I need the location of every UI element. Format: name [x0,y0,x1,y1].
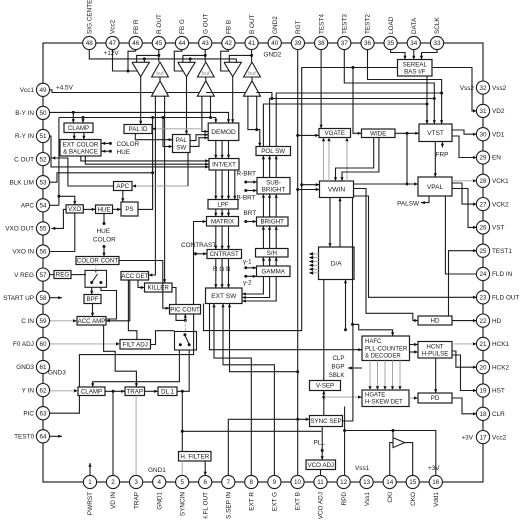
dot BRT [244,210,257,223]
gray wire TRAP to pin 3 [135,396,137,476]
label R G B [213,266,230,273]
pin 2 VD IN [106,475,119,509]
wire VXO OUT to pin 55 [52,209,67,230]
pin 59 C IN [21,314,49,327]
svg-text:6: 6 [203,479,207,486]
pin 19 HST [476,384,504,397]
svg-text:V REG: V REG [14,272,34,279]
pin 8 EXT R [245,475,258,510]
pin 54 APC [21,199,50,212]
block V-SEP [310,381,341,391]
wire HGATE down to RPD [343,407,346,476]
wire VWIN to VPAL [354,182,419,185]
wire pin 11 to VCO ADJ [320,470,322,476]
pin 51 R-Y IN [15,129,50,142]
wire VTST top arrow [425,104,428,124]
wire D/A to VWIN [338,198,341,248]
pin 55 VXO OUT [5,222,49,235]
svg-text:GND2: GND2 [264,52,282,59]
svg-text:14: 14 [386,479,394,486]
wire V-SEP up to D/A [323,280,325,381]
wire pin 9 EXT G to EXT SW [221,304,274,476]
pin 32 Vss2 [476,81,506,94]
block SYNC SEP [310,416,343,427]
wire VTST to VPAL [434,142,437,178]
svg-text:39: 39 [294,40,302,47]
pin 22 HD [476,314,501,327]
wire pin 53 BLK LIM [49,171,154,182]
wires BRIGHT to SUB-BRIGHT [262,194,278,217]
wire pin 56 VXO IN [49,213,75,252]
pin 63 PIC [23,407,49,420]
wire BPF to ACC AMP [91,304,94,317]
svg-text:Vss1: Vss1 [355,465,370,472]
svg-text:GND3: GND3 [48,370,66,377]
gray wire APC control [132,184,188,187]
wire REG to switch [71,274,86,276]
svg-text:EXT COLOR: EXT COLOR [63,141,99,148]
wire D/A to pin 23 FLD OUT [354,196,477,299]
svg-text:48: 48 [86,40,94,47]
label Vss2 left [460,85,475,92]
pin 43 G OUT [199,14,212,50]
switch S1 [85,270,107,287]
svg-text:18: 18 [479,411,487,418]
svg-text:& BALANCE: & BALANCE [63,149,98,156]
svg-text:25: 25 [479,248,487,255]
svg-text:H-PULSE: H-PULSE [422,351,449,358]
wire ext color to int/ext 2 [85,156,209,166]
wire POL SW to VTST col 1 [263,103,428,147]
wires MATRIX to CNTRAST [214,226,230,250]
block CLAMP (luma) [78,387,105,396]
pin 7 S.SEP IN [222,475,235,518]
svg-text:HD: HD [431,318,440,325]
pin 41 B OUT [245,14,258,49]
gray wire to HGATE [324,396,362,399]
wire FB pin jog group 3 [221,49,230,71]
wire SYNC SEP to PLL [321,427,323,451]
svg-text:41: 41 [248,40,256,47]
wire PAL SW to APC line [187,153,189,187]
svg-text:H. FILTER: H. FILTER [180,454,209,461]
svg-text:B-BRT: B-BRT [237,194,256,201]
svg-text:R G B: R G B [213,266,230,273]
wires LPF to MATRIX [214,209,230,217]
wire C3 right leg [255,96,258,131]
svg-text:VD2: VD2 [492,108,505,115]
pin 60 F0 ADJ [13,337,50,350]
dot HUE adjust [102,149,131,156]
wire bus2 to PAL SW [163,118,173,149]
wire HAFC to HCNT 2 [410,350,419,353]
svg-text:35: 35 [387,40,395,47]
svg-text:HD: HD [492,318,502,325]
dot COLOR center [93,237,116,257]
svg-text:COLOR CONT: COLOR CONT [77,258,118,265]
pin 29 EN [476,151,501,164]
wire RGT to VWIN [298,188,320,191]
block HGATE H-SKEW DET [362,390,409,407]
block HUE [96,205,113,214]
svg-text:46: 46 [132,40,140,47]
svg-text:S/H: S/H [267,250,277,257]
block MATRIX [207,217,239,227]
svg-text:HST: HST [492,388,505,395]
label +3V above pin 16 [428,465,440,472]
block EXT COLOR & BALANCE [60,140,101,157]
svg-text:C IN: C IN [21,318,34,325]
svg-text:buf: buf [202,71,210,77]
wire pin 63 PIC to PIC CONT [49,314,193,413]
svg-text:SBLK: SBLK [329,372,346,379]
wires GAMMA to EXT SW [242,277,276,303]
block KILLER [145,283,173,292]
svg-text:VD1: VD1 [492,131,505,138]
wire CKO to pin 15 [405,443,413,476]
wire WIDE drop to VPAL [406,133,409,185]
svg-text:D/A: D/A [331,261,343,268]
wire pin 37 TEST3 [344,49,436,124]
svg-text:19: 19 [479,388,487,395]
wire pin 58 START UP stub [49,296,62,299]
pin 40 GND2 [268,16,281,50]
svg-text:Y IN: Y IN [22,387,35,394]
wire VTST to pin 29 [452,136,477,159]
svg-text:HUE: HUE [97,228,111,235]
svg-text:BGP: BGP [331,363,344,370]
wire C3 left leg to POL SW [248,96,262,146]
svg-text:SIG.CENTER: SIG.CENTER [87,0,94,34]
wire ext color to int/ext 1 [81,156,209,163]
pin 47 Vcc2 [106,19,119,49]
label CLP BGP SBLK [329,355,362,379]
wire amp A2 out to PAL SW [185,77,188,135]
svg-text:B OUT: B OUT [249,14,256,34]
amplifier C1 [152,81,169,96]
svg-text:START UP: START UP [3,295,34,302]
svg-text:45: 45 [155,40,163,47]
wire PD to pin 18 [452,398,477,415]
wire pin 2 VD IN up [112,391,114,476]
wire pin 24 FLD IN to VPAL [445,196,476,274]
svg-text:27: 27 [479,201,487,208]
wire buf to lower triangle group 2 [205,77,207,81]
wire pin 8 EXT R to EXT SW [212,304,251,476]
wire WIDE to VWIN 2 [340,138,379,182]
svg-text:64: 64 [39,434,47,441]
wire +4.5V rail seg4 [256,93,273,101]
gray wire VPAL to pin 28 [452,179,477,182]
svg-text:HCNT: HCNT [426,343,443,350]
wire clamp feed 2 [81,118,84,124]
wire buf to lower triangle group 3 [251,77,253,81]
svg-text:CLAMP: CLAMP [68,125,89,132]
svg-text:BPF: BPF [86,296,98,303]
pin 33 SCLK [430,17,443,50]
wire pin 7 S.SEP IN to SYNC SEP [228,418,309,476]
svg-text:59: 59 [39,318,47,325]
block switch box S3 [175,332,197,351]
wire pin 33 SCLK [420,49,437,59]
block D/A [319,247,355,280]
pin 27 VCK2 [476,198,509,211]
pin 57 V REG [14,268,49,281]
label +12V [104,50,120,57]
svg-text:DEMOD: DEMOD [211,129,236,136]
wire SYNC SEP to V-SEP [322,391,325,416]
wire TRAP to DL 1 [145,390,159,393]
block INT/EXT [209,159,239,171]
wire amp A1 out to PAL ID [139,77,142,125]
label GND3 [48,370,66,377]
gray wire pin 59 C IN [49,319,77,322]
wire pin 57 to REG [49,274,54,276]
svg-text:BRIGHT: BRIGHT [262,187,286,194]
wire C1 left leg to ACC DET [149,96,156,276]
svg-text:34: 34 [410,40,418,47]
svg-text:R OUT: R OUT [156,14,163,34]
wire clamp to ext color 1 [73,133,76,140]
svg-text:SEREAL: SEREAL [403,61,428,68]
svg-text:EN: EN [492,155,501,162]
wire feedback group 3 [229,55,251,62]
svg-text:54: 54 [39,203,47,210]
wire WIDE to VTST [395,132,419,135]
block APC [114,182,133,191]
svg-text:TEST4: TEST4 [318,14,325,34]
svg-text:56: 56 [39,249,47,256]
wire clamp feed 1 [72,112,75,123]
svg-text:FB B: FB B [226,20,233,34]
svg-text:EXT R: EXT R [249,492,256,511]
svg-text:CLR: CLR [492,411,505,418]
svg-text:37: 37 [341,40,349,47]
svg-text:32: 32 [479,85,487,92]
wire switch to BPF [90,287,93,294]
svg-text:ACC DET: ACC DET [121,273,148,280]
linkage S1 dashed [95,265,97,271]
gray wire pin 5 SYNCIN [181,461,183,476]
svg-text:52: 52 [39,156,47,163]
svg-text:49: 49 [39,87,47,94]
svg-text:12: 12 [340,479,348,486]
svg-text:Vss2: Vss2 [460,85,475,92]
svg-text:VD IN: VD IN [110,492,117,509]
block PD [418,393,452,403]
block FILT ADJ [120,340,151,350]
svg-text:16: 16 [432,479,440,486]
svg-text:CKO: CKO [410,492,417,506]
wire POL SW to VTST col 2 [270,97,436,147]
wire feedback group 1 [137,55,159,62]
wire switch right leg [101,287,117,319]
wire PIC CONT to MATRIX [194,220,207,305]
svg-text:SUB-: SUB- [266,179,281,186]
svg-text:KILLER: KILLER [148,285,170,292]
svg-text:RGT: RGT [295,20,302,34]
pin 58 START UP [3,291,50,304]
buffer buf2 [197,62,214,77]
wire VPAL to pin 26 [452,189,477,230]
wire FB pin jog group 2 [174,49,183,71]
wire WIDE to VWIN 1 [334,138,374,182]
block ACC AMP [77,317,106,326]
svg-text:44: 44 [178,40,186,47]
svg-text:PALSW: PALSW [397,200,420,207]
svg-text:V-SEP: V-SEP [316,383,334,390]
svg-text:H-SKEW DET: H-SKEW DET [365,400,403,406]
svg-text:63: 63 [39,410,47,417]
pin 62 Y IN [22,384,50,397]
wire pin 36 TEST2 [368,49,444,124]
label GND2 under pin 40 [264,52,282,59]
svg-text:1: 1 [88,479,92,486]
svg-text:3: 3 [134,479,138,486]
wire HUE to PS [113,208,122,211]
svg-text:Vdd1: Vdd1 [433,492,440,507]
wire HCNT to pin 20 [452,351,477,369]
wire +12V from pin 47 [113,49,138,72]
svg-text:TEST3: TEST3 [342,14,349,34]
svg-text:DATA: DATA [411,17,418,34]
svg-text:ACC AMP: ACC AMP [78,318,106,325]
svg-text:PLL: PLL [314,440,326,447]
svg-text:VXO OUT: VXO OUT [5,226,34,233]
wire SEREAL down 1 [426,76,428,124]
pin 10 EXT B [291,475,304,510]
amplifier C3 [244,81,261,96]
dot R-BRT [237,170,258,183]
wire +3V to pin 16 [345,431,436,476]
wire ACC AMP to TRAP [104,325,138,387]
wire pin 39 RGT trunk [296,49,299,476]
svg-text:8: 8 [250,479,254,486]
wire pin 64 TEST0 stub [49,435,62,438]
svg-text:9: 9 [273,479,277,486]
wire HCNT to PD [434,358,437,393]
block S/H [256,249,289,258]
svg-text:31: 31 [479,108,487,115]
svg-text:53: 53 [39,179,47,186]
wire FILT ADJ right [151,331,175,345]
svg-text:SYNC SEP: SYNC SEP [310,418,341,425]
svg-text:INT/EXT: INT/EXT [212,162,236,169]
svg-text:POL SW: POL SW [261,148,285,155]
pin 5 SYNCIN [176,475,189,516]
block LPF [208,200,238,210]
svg-text:22: 22 [479,318,487,325]
svg-text:BAS I/F: BAS I/F [404,69,426,76]
wire TEST1 pin 25 [449,249,477,316]
wire C1 right leg to KILLER [163,96,166,283]
wire PS up to bus [138,118,153,210]
wire SIG.CENTER rail from pin 48 [89,49,236,60]
svg-text:Vss2: Vss2 [492,85,507,92]
dot COLOR adjust [102,141,140,148]
svg-text:10: 10 [294,479,302,486]
wire +4.5V rail seg2 [166,92,199,94]
svg-text:GND1: GND1 [148,467,166,474]
svg-text:FLD OUT: FLD OUT [492,295,519,302]
pin 14 CKI [383,475,396,502]
pin 30 VD1 [476,128,504,141]
block H. FILTER [179,452,212,462]
block TRAP [125,387,145,396]
wire SEREAL right to pin 31 [432,68,477,113]
svg-text:Vcc2: Vcc2 [492,434,507,441]
svg-text:FB R: FB R [133,19,140,34]
block BRIGHT [257,217,289,226]
svg-text:& DECODER: & DECODER [365,354,401,360]
block PAL ID [124,125,152,134]
pin 52 C OUT [14,153,49,166]
svg-text:7: 7 [227,479,231,486]
svg-text:TEST0: TEST0 [14,434,34,441]
svg-text:G OUT: G OUT [202,14,209,34]
buffer clock [393,438,405,448]
wire VXO top feed [59,196,77,205]
pin 61 GND3 [16,360,49,373]
block COLOR CONT [76,257,119,265]
wire clamp to ext color 2 [82,133,85,140]
svg-text:PIC: PIC [23,410,34,417]
svg-text:Vss1: Vss1 [364,492,371,507]
wire POL SW to VTST col 3 [276,92,443,147]
block CNTRAST [207,250,242,259]
dot B-BRT [237,189,258,201]
svg-text:γ-2: γ-2 [243,280,252,287]
IC package border [43,43,483,482]
svg-text:SW: SW [176,144,186,151]
pin 46 FB R [129,19,142,50]
pin 37 TEST3 [338,14,351,50]
svg-text:FB G: FB G [179,19,186,34]
wire C2 left leg to DEMOD left [202,96,208,133]
pin 53 BLK LIM [9,176,49,189]
pin 25 TEST1 [476,244,512,257]
wire dot to PIC CONT [184,314,187,320]
svg-text:GND3: GND3 [16,364,34,371]
block VTST [419,124,452,142]
pin 45 R OUT [152,14,165,50]
svg-text:47: 47 [109,40,117,47]
svg-text:Vcc1: Vcc1 [20,87,35,94]
wire H FILTER to pin 6 [204,461,207,476]
block VCO ADJ [306,460,336,470]
wires S/H to BRIGHT [262,226,278,249]
svg-text:57: 57 [39,272,47,279]
pin 28 VCK1 [476,174,509,187]
pin 16 Vdd1 [429,475,442,507]
pin 36 TEST2 [361,14,374,50]
pin 26 VST [476,221,504,234]
svg-text:FLD IN: FLD IN [492,271,513,278]
svg-text:2: 2 [111,479,115,486]
svg-text:5: 5 [180,479,184,486]
svg-text:43: 43 [202,40,210,47]
wire VTST to pin 30 [452,130,477,136]
svg-text:PAL: PAL [176,137,188,144]
svg-text:PIC CONT: PIC CONT [170,307,200,314]
wire KILLER to PIC CONT [172,288,187,322]
svg-text:15: 15 [409,479,417,486]
block ACC DET [121,272,149,281]
wire rail drop to amp1 input [143,59,145,62]
svg-text:42: 42 [225,40,233,47]
wire PAL SW to DEMOD 2 [190,136,208,146]
pin 34 DATA [407,17,420,49]
